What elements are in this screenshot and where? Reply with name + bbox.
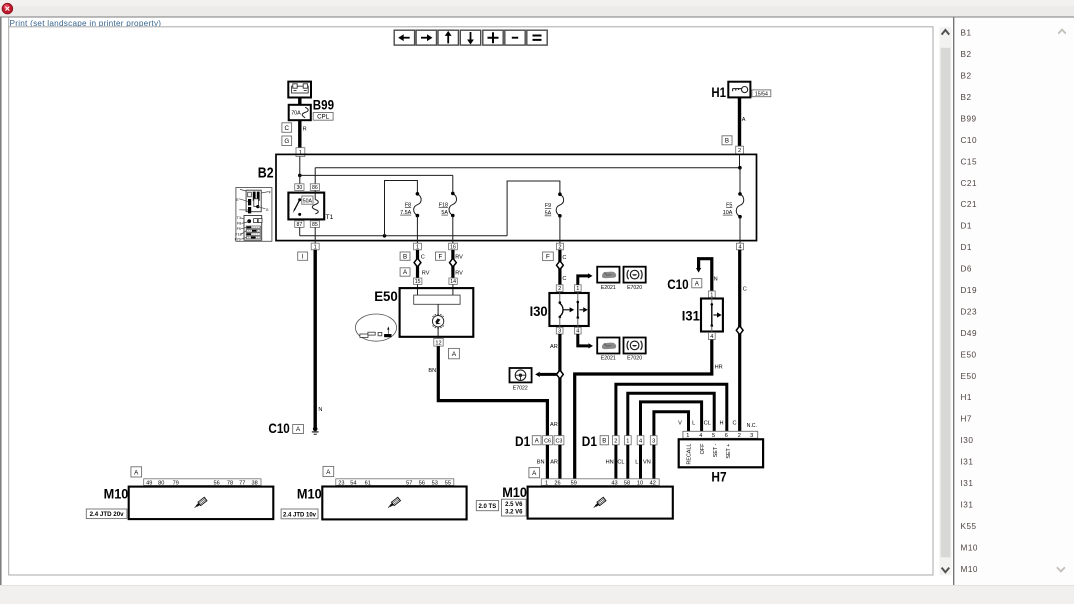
svg-text:E7020: E7020	[627, 355, 642, 361]
relay T1 pin 85	[310, 221, 319, 228]
svg-text:B: B	[403, 253, 407, 260]
svg-text:56: 56	[419, 480, 425, 486]
arrow I30 pin1 to cluster	[578, 276, 588, 285]
svg-text:2.0 TS: 2.0 TS	[479, 504, 497, 510]
relay T1 pin 87	[295, 221, 304, 228]
svg-text:I30: I30	[961, 436, 974, 445]
telltale E2021 (row 2)	[597, 338, 619, 354]
svg-text:K55: K55	[961, 522, 977, 531]
svg-text:C: C	[733, 421, 737, 427]
wire CL D1 pin1 to H7 pin5	[628, 393, 714, 435]
ECU M10 (right)	[529, 468, 540, 478]
arrow to steering switch E7022	[540, 373, 557, 376]
svg-text:B2: B2	[961, 93, 972, 102]
svg-text:HN: HN	[606, 460, 614, 466]
svg-text:H7: H7	[961, 415, 972, 424]
svg-text:80: 80	[158, 480, 164, 486]
svg-text:3: 3	[652, 438, 655, 444]
B2 bottom pin 16 (F18)	[449, 243, 458, 250]
svg-text:23: 23	[338, 480, 344, 486]
svg-text:H1: H1	[961, 393, 972, 402]
svg-text:N: N	[318, 407, 322, 413]
sidebar panel	[954, 18, 1074, 586]
B2 bottom pin 2 (F9)	[556, 243, 563, 250]
svg-text:50A: 50A	[303, 198, 313, 204]
B2 pin 1 (top)	[296, 148, 305, 157]
svg-text:F: F	[546, 254, 550, 261]
red close button	[2, 3, 12, 13]
svg-text:1: 1	[416, 245, 419, 251]
svg-text:4: 4	[699, 433, 702, 439]
svg-text:54: 54	[350, 480, 356, 486]
svg-text:2: 2	[558, 245, 561, 251]
svg-text:C: C	[562, 276, 566, 282]
svg-text:A: A	[535, 438, 539, 444]
svg-text:14: 14	[450, 279, 456, 285]
svg-text:43: 43	[611, 480, 617, 486]
I30 pin 2	[556, 285, 563, 292]
svg-text:AR: AR	[550, 422, 558, 428]
svg-text:2.5 V6: 2.5 V6	[505, 502, 523, 508]
wire RV F18 to E50 pin 14	[451, 250, 454, 278]
svg-text:F70: F70	[235, 237, 241, 241]
diagram panel	[9, 27, 933, 575]
svg-text:42: 42	[650, 480, 656, 486]
wire AR I30 pin3 to D1 pin C3	[558, 334, 561, 436]
svg-text:15/54: 15/54	[755, 91, 768, 97]
connector letter C	[282, 123, 292, 133]
fuse 70A B99	[289, 105, 311, 120]
label CPL	[313, 113, 333, 121]
svg-text:HR: HR	[715, 364, 723, 370]
svg-text:16: 16	[450, 245, 456, 251]
telltale E7020 (row 1)	[624, 267, 646, 283]
svg-text:12: 12	[435, 340, 441, 346]
svg-text:85: 85	[312, 222, 318, 228]
wire L D1 pin4 to H7 pin4	[641, 402, 702, 436]
svg-text:10: 10	[637, 480, 643, 486]
fuse F5 10A	[736, 194, 744, 217]
svg-text:B2: B2	[961, 50, 972, 59]
wire C/RV F8 to E50 pin 15	[416, 250, 419, 278]
svg-text:F18: F18	[439, 202, 448, 208]
wires BN / AR to M10	[546, 445, 549, 479]
svg-text:F9: F9	[237, 227, 241, 231]
wire node to relay 30	[299, 175, 301, 183]
svg-text:G: G	[266, 208, 269, 212]
svg-text:RV: RV	[422, 270, 430, 276]
steering column switch H7	[679, 439, 763, 467]
ECU M10 (middle)	[323, 466, 334, 476]
svg-text:R: R	[303, 127, 307, 133]
battery B99	[288, 82, 311, 98]
svg-text:61: 61	[365, 480, 371, 486]
sidebar scrollbar arrows	[1058, 30, 1066, 34]
svg-text:I31: I31	[961, 458, 974, 467]
I31 pin 1	[708, 291, 715, 298]
svg-text:78: 78	[227, 480, 233, 486]
wire battery bus to F18	[300, 174, 453, 176]
wire relay 87 to fuse bus	[299, 227, 301, 235]
wires HN CL L VN to M10	[614, 445, 617, 479]
svg-text:M10: M10	[961, 543, 978, 552]
svg-text:E50: E50	[961, 372, 977, 381]
svg-text:D1: D1	[515, 434, 531, 449]
svg-text:I: I	[302, 253, 304, 260]
svg-text:30: 30	[296, 185, 302, 191]
svg-text:CPL: CPL	[317, 114, 330, 121]
svg-text:B2: B2	[258, 166, 274, 182]
svg-text:4: 4	[738, 245, 741, 251]
svg-text:5A: 5A	[441, 210, 448, 216]
svg-text:56: 56	[213, 480, 219, 486]
svg-text:1: 1	[545, 480, 548, 486]
svg-text:87: 87	[296, 222, 302, 228]
svg-text:H1: H1	[711, 85, 726, 100]
svg-text:1: 1	[686, 433, 689, 439]
telltale E7020 (row 2)	[624, 338, 646, 354]
svg-text:D49: D49	[961, 329, 978, 338]
svg-text:26: 26	[554, 480, 560, 486]
svg-text:M10: M10	[502, 485, 527, 500]
window left border	[0, 18, 2, 586]
svg-text:CL: CL	[617, 460, 624, 466]
label 15/54	[752, 90, 771, 97]
I30 pin 3	[556, 327, 563, 334]
connector letter F (F9 wire)	[543, 252, 554, 261]
D1 pin C6	[543, 436, 553, 445]
svg-text:4: 4	[639, 438, 642, 444]
svg-text:BN: BN	[537, 460, 545, 466]
svg-text:N: N	[714, 276, 718, 282]
svg-text:57: 57	[406, 480, 412, 486]
svg-text:C15: C15	[961, 157, 978, 166]
svg-text:RECALL: RECALL	[687, 444, 693, 465]
E50 pin 15	[414, 278, 422, 284]
svg-text:I31: I31	[961, 501, 974, 510]
svg-text:2.4 JTD 20v: 2.4 JTD 20v	[90, 511, 125, 518]
wire ignition feed to coil 86 and F5	[315, 167, 740, 169]
svg-text:6: 6	[725, 433, 728, 439]
svg-text:1: 1	[576, 286, 579, 292]
B2 bottom pin 1 (F8)	[414, 243, 422, 250]
telltale E7022	[510, 368, 532, 382]
wire coil 85 to pin 1	[314, 227, 316, 243]
svg-text:1: 1	[314, 245, 317, 251]
svg-text:M10: M10	[297, 487, 322, 502]
connector letter A (F8 wire)	[400, 268, 410, 276]
svg-text:RV: RV	[455, 254, 463, 260]
wire HR I31 to M10 pin 59	[575, 340, 712, 479]
svg-text:2: 2	[738, 433, 741, 439]
splice on AR wire	[557, 370, 564, 379]
svg-text:C3: C3	[555, 438, 562, 444]
svg-text:D1: D1	[961, 243, 972, 252]
svg-text:F18: F18	[235, 232, 241, 236]
variant label 2.5 V6 / 3.2 V6	[502, 499, 527, 516]
svg-text:58: 58	[624, 480, 630, 486]
B2 bottom pin 4 (F5)	[737, 243, 744, 250]
wire HN D1 pin2 to H7 pin6	[616, 384, 727, 435]
svg-text:C6: C6	[544, 438, 551, 444]
wire R to B2 pin 1	[298, 120, 301, 148]
svg-text:2: 2	[614, 438, 617, 444]
riser to F9	[507, 181, 560, 236]
bottom grey strip	[0, 585, 1074, 604]
switch I31	[701, 299, 723, 332]
svg-text:D19: D19	[961, 286, 978, 295]
wire V D1 pin3 to H7 pin1	[654, 412, 689, 436]
node: battery feed junction	[298, 174, 302, 178]
window top bar	[0, 0, 1074, 17]
svg-text:B: B	[602, 438, 606, 444]
svg-text:L: L	[692, 421, 695, 427]
connector letter I	[298, 252, 308, 260]
connector letter B (F8 wire)	[400, 252, 410, 260]
panel left border above diagram	[8, 18, 10, 27]
svg-text:C: C	[285, 125, 290, 132]
fuse F18 5A	[449, 193, 457, 215]
svg-text:T1: T1	[326, 214, 334, 221]
fusebox B2 outline	[276, 154, 757, 240]
I30 pin 1	[574, 285, 581, 292]
svg-text:3: 3	[750, 433, 753, 439]
svg-text:55: 55	[445, 480, 451, 486]
svg-text:49: 49	[146, 480, 152, 486]
variant label 2.4 JTD 20v	[86, 509, 127, 519]
B2 location icon	[236, 188, 272, 242]
svg-text:B99: B99	[313, 98, 334, 113]
svg-text:M10: M10	[961, 565, 978, 574]
svg-text:L: L	[635, 460, 638, 466]
relay T1	[288, 193, 324, 220]
E50 pin 12	[434, 338, 443, 346]
wire battery to fuse	[298, 98, 301, 105]
svg-text:AR: AR	[550, 344, 558, 350]
D1 pin C3	[554, 436, 564, 445]
svg-text:M10: M10	[104, 487, 129, 502]
wire A from H1	[738, 97, 741, 146]
wire N I31 pin1 to C10	[699, 259, 712, 291]
B2 bottom pin 1 (85)	[311, 243, 319, 250]
svg-text:V: V	[678, 421, 682, 427]
I30 pin 4	[574, 327, 581, 334]
svg-text:B1: B1	[961, 29, 972, 38]
telltale E2021 (row 1)	[597, 267, 619, 283]
svg-text:70A: 70A	[291, 111, 301, 117]
D1 pin 2	[612, 436, 619, 445]
fuse F8 7.5A	[414, 194, 422, 216]
svg-text:B: B	[725, 138, 729, 145]
svg-text:B2: B2	[961, 72, 972, 81]
svg-text:C: C	[421, 254, 425, 260]
svg-text:E7022: E7022	[513, 386, 528, 392]
fuse output stubs through B2 bottom	[416, 216, 418, 244]
svg-text:38: 38	[251, 480, 257, 486]
svg-text:4: 4	[576, 329, 579, 335]
svg-text:79: 79	[173, 480, 179, 486]
ECU M10 (left)	[131, 467, 142, 477]
svg-text:F8: F8	[237, 222, 241, 226]
B2 pin 2 (top)	[736, 146, 744, 154]
svg-text:77: 77	[239, 480, 245, 486]
switch I30	[549, 293, 588, 326]
svg-text:F: F	[439, 253, 443, 260]
E50 pin 14	[449, 278, 457, 284]
svg-text:SET +: SET +	[726, 444, 732, 459]
svg-text:E7020: E7020	[627, 285, 642, 291]
svg-text:I31: I31	[961, 479, 974, 488]
variant label 2.0 TS	[476, 501, 498, 511]
svg-text:C: C	[743, 287, 747, 293]
svg-text:7.5A: 7.5A	[400, 210, 411, 216]
svg-text:C10: C10	[667, 277, 688, 292]
svg-text:VN: VN	[643, 460, 651, 466]
connector letter A (E50 wire)	[449, 348, 460, 358]
wire BN E50 to D1 pin C6	[438, 346, 547, 436]
svg-text:C10: C10	[268, 421, 289, 436]
svg-text:RV: RV	[455, 270, 463, 276]
relay T1 pin 30	[295, 184, 304, 191]
svg-text:5: 5	[712, 433, 715, 439]
svg-text:2: 2	[558, 286, 561, 292]
D1 pin 1	[625, 436, 632, 445]
wire N to ground C10	[314, 250, 317, 429]
H7 pin row 1 4 5 6 2 3	[683, 431, 758, 438]
svg-text:3: 3	[558, 329, 561, 335]
svg-text:C21: C21	[961, 200, 978, 209]
svg-text:86: 86	[312, 185, 318, 191]
I31 pin 4	[708, 333, 715, 340]
svg-text:5A: 5A	[545, 211, 552, 217]
svg-text:C21: C21	[961, 179, 978, 188]
svg-text:H7: H7	[711, 470, 726, 485]
connector letter F (F18 wire)	[436, 252, 446, 260]
svg-text:E2021: E2021	[601, 355, 616, 361]
fuse F9 5A	[556, 194, 564, 216]
svg-text:F5: F5	[726, 202, 732, 208]
svg-text:15: 15	[415, 279, 421, 285]
svg-text:4: 4	[710, 334, 713, 340]
svg-text:B99: B99	[961, 114, 977, 123]
svg-text:F9: F9	[545, 203, 551, 209]
svg-text:G: G	[284, 138, 289, 145]
variant label 2.4 JTD 10v	[281, 509, 318, 519]
D1 pin 4	[637, 436, 644, 445]
svg-text:A: A	[452, 351, 457, 358]
svg-text:I30: I30	[530, 303, 548, 319]
main scrollbar	[940, 27, 952, 575]
wire C F5 to H7 pin 2	[738, 250, 741, 431]
svg-text:D1: D1	[582, 434, 598, 449]
svg-text:SET -: SET -	[713, 443, 719, 457]
relay T1 pin 86	[310, 184, 319, 191]
svg-text:C10: C10	[961, 136, 978, 145]
svg-text:AR: AR	[550, 460, 558, 466]
riser to F8	[385, 181, 418, 236]
svg-text:3.2 V6: 3.2 V6	[505, 510, 523, 516]
svg-text:N.C.: N.C.	[747, 423, 757, 429]
svg-text:A: A	[742, 117, 746, 123]
arrow I30 pin4 to cluster (row 2)	[578, 334, 589, 346]
svg-text:2: 2	[738, 148, 741, 154]
svg-text:H: H	[720, 421, 724, 427]
svg-text:D6: D6	[961, 265, 972, 274]
svg-text:E50: E50	[961, 350, 977, 359]
svg-text:E2021: E2021	[601, 285, 616, 291]
svg-text:C: C	[562, 255, 566, 261]
svg-text:1: 1	[626, 438, 629, 444]
connector letter B	[722, 136, 732, 145]
toolbar buttons	[394, 30, 414, 45]
svg-text:CL: CL	[704, 421, 711, 427]
D1 pin 3	[650, 436, 657, 445]
lamp symbol in E50	[432, 316, 443, 327]
svg-text:OFF: OFF	[700, 443, 706, 454]
svg-text:59: 59	[571, 480, 577, 486]
cigar lighter E50	[400, 288, 474, 337]
courtesy icon (cigar lighter drawing)	[355, 314, 396, 341]
svg-text:E50: E50	[374, 288, 398, 304]
svg-text:F8: F8	[405, 202, 411, 208]
svg-text:2.4 JTD 10v: 2.4 JTD 10v	[283, 512, 317, 518]
svg-text:53: 53	[432, 480, 438, 486]
svg-text:I31: I31	[682, 308, 700, 324]
svg-text:10A: 10A	[723, 210, 733, 216]
svg-text:D1: D1	[961, 222, 972, 231]
svg-text:BN: BN	[428, 368, 436, 374]
wire C F9 to I30 pin 2	[558, 250, 561, 285]
connector letter G	[282, 136, 292, 146]
svg-text:D23: D23	[961, 307, 978, 316]
